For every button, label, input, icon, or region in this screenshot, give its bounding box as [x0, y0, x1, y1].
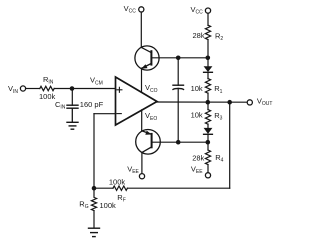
resistor RG 100k [91, 188, 96, 210]
resistor R3 10k [207, 102, 209, 109]
wire VIN to RIN [26, 88, 40, 90]
svg-text:100k: 100k [39, 92, 56, 101]
node input junction [70, 86, 75, 91]
wire RF to feedback right vertical [127, 187, 229, 189]
diode D2 [204, 128, 213, 134]
resistor R2 28k [205, 25, 210, 39]
node feedback bottom junction [92, 186, 97, 191]
wire to RF [94, 187, 113, 189]
resistor R1 10k [207, 72, 209, 78]
ground RG [89, 227, 100, 229]
terminal VOUT [247, 100, 252, 105]
ground CIN [67, 121, 78, 123]
wire comp cap top lead [177, 58, 179, 85]
wire Q2 base row [152, 141, 208, 143]
node cap bottom junction [176, 140, 181, 145]
node chain bottom junction [206, 140, 211, 145]
svg-text:160 pF: 160 pF [80, 100, 104, 109]
terminal VCC left [139, 7, 144, 12]
terminal VCC right [205, 8, 210, 13]
op-amp minus sign [117, 113, 121, 115]
wire CIN top lead [71, 89, 73, 106]
svg-text:10k: 10k [191, 111, 203, 120]
wire comp cap bottom lead crossing output row [177, 88, 179, 142]
wire feedback right vertical [229, 102, 231, 188]
wire VCC to R2 [207, 13, 209, 25]
wire output row [156, 101, 247, 103]
wire RIN to op-amp + input [54, 88, 115, 90]
wire Q1 emitter to op-amp VCO edge [141, 68, 143, 92]
wire Q1 base row [151, 57, 207, 59]
wire Q2 emitter to op-amp VEO edge [141, 110, 143, 131]
terminal VEE right [205, 173, 210, 178]
node feedback top junction [227, 100, 232, 105]
svg-text:28k: 28k [192, 153, 204, 162]
wire VCC to Q1 collector [140, 12, 142, 47]
wire CIN to ground [71, 108, 73, 122]
wire feedback left vertical [93, 114, 95, 189]
node chain top junction [206, 56, 211, 61]
wire R2 to node [207, 40, 209, 58]
terminal VIN [20, 86, 25, 91]
transistor Q1 [135, 46, 159, 70]
node output chain junction [206, 100, 211, 105]
wire Q2 collector to VEE [141, 153, 143, 174]
terminal VEE left [139, 174, 144, 179]
svg-text:100k: 100k [100, 201, 117, 210]
resistor RIN 100k [40, 86, 54, 90]
wire op-amp minus input [94, 113, 116, 115]
transistor Q2 [136, 130, 161, 155]
capacitor CIN 160pF [67, 104, 78, 106]
resistor RF 100k [113, 186, 127, 190]
svg-text:100k: 100k [109, 177, 126, 186]
op-amp U1 [116, 77, 158, 125]
node cap top junction [176, 56, 181, 61]
resistor R4 28k [207, 142, 209, 150]
op-amp plus sign [117, 89, 122, 91]
diode D1 [207, 58, 209, 66]
wire RG to ground [93, 211, 95, 228]
svg-text:28k: 28k [193, 31, 205, 40]
svg-text:10k: 10k [191, 84, 203, 93]
capacitor comp [173, 84, 184, 86]
